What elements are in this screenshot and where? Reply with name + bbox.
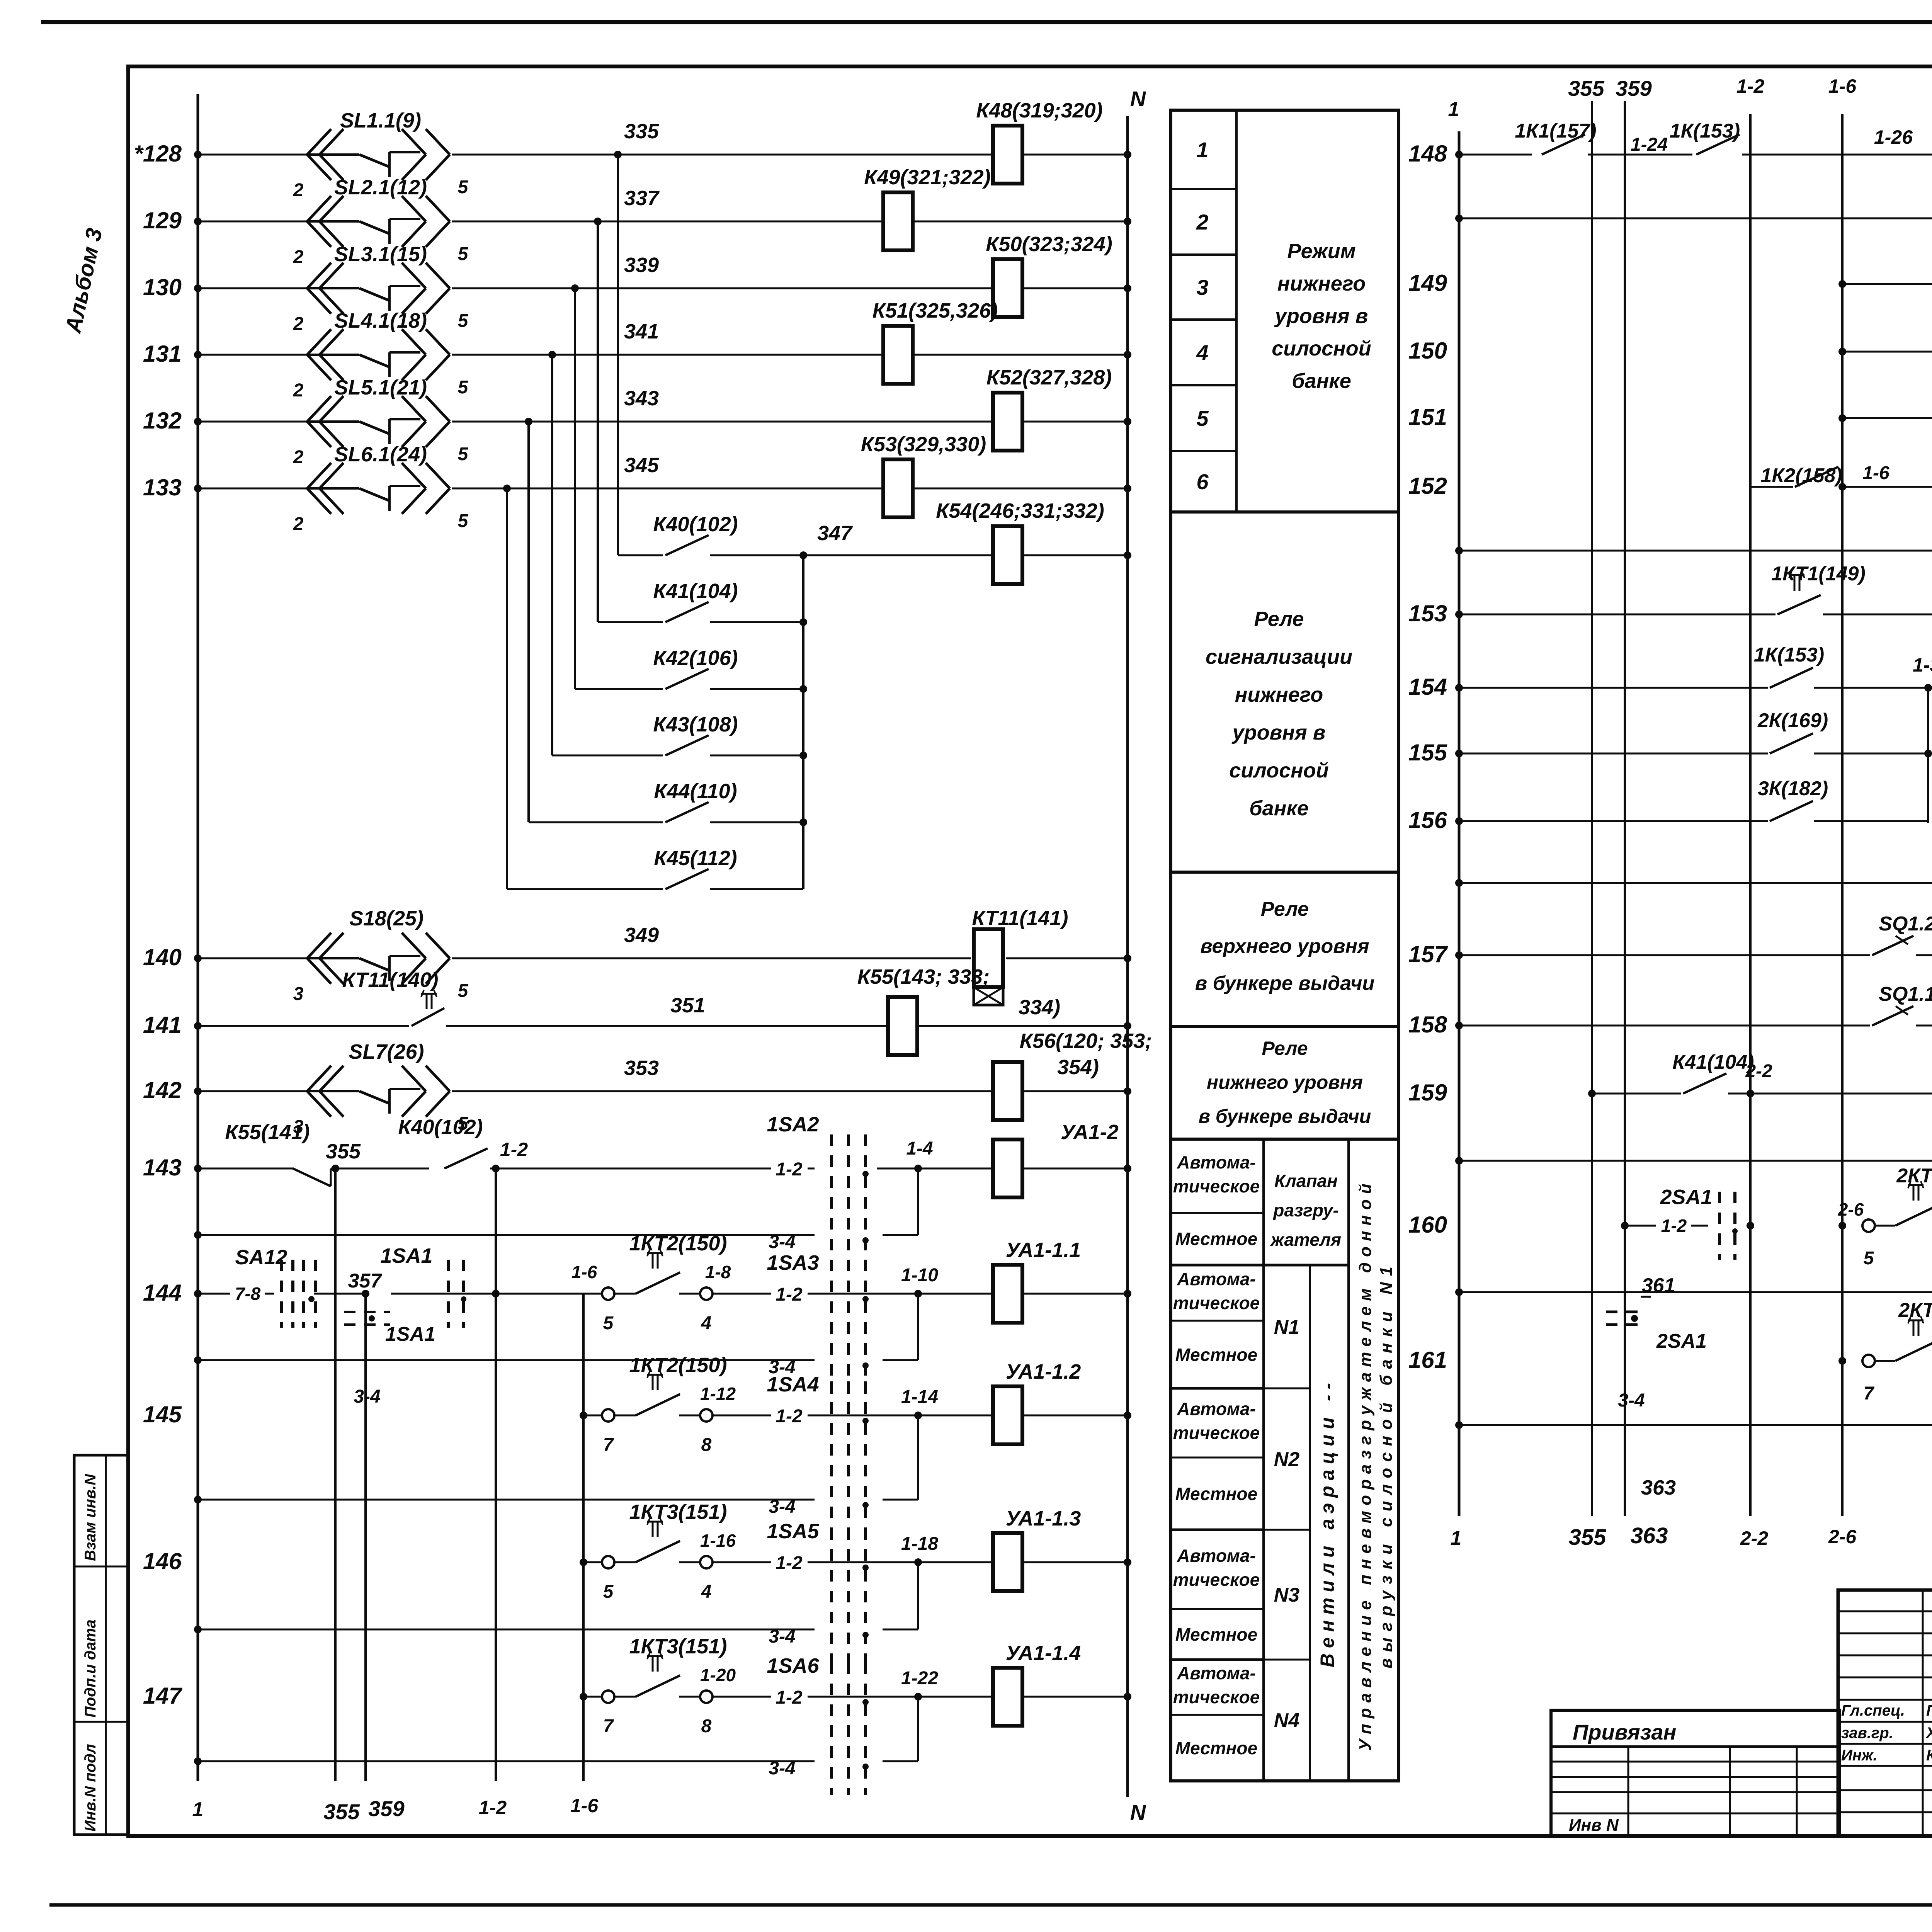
drop wire from row 132 [527, 422, 530, 822]
svg-text:1SА4: 1SА4 [767, 1373, 819, 1396]
wire row 132 to N bus [1022, 418, 1131, 425]
svg-text:К55(143; 333;: К55(143; 333; [857, 965, 990, 988]
wire row 160 a [1621, 1216, 1708, 1236]
svg-text:7: 7 [1864, 1383, 1875, 1404]
coil K54 [993, 526, 1022, 584]
wire 3-4 group 145 [194, 1415, 918, 1517]
svg-text:верхнего уровня: верхнего уровня [1200, 935, 1369, 957]
svg-text:130: 130 [143, 274, 182, 300]
wire 3-4 group 144 [194, 1294, 918, 1378]
node 347 [799, 522, 853, 559]
title block signature grid [1838, 1590, 1932, 1836]
switch 1SА4 [767, 1373, 869, 1534]
svg-text:5: 5 [458, 311, 469, 331]
paper top edge line [41, 20, 1932, 24]
svg-text:140: 140 [143, 944, 182, 970]
coil label К52(327,328) [986, 366, 1112, 389]
wire row 152 [1838, 463, 1932, 491]
svg-text:Хрипишеина: Хрипишеина [1925, 1725, 1932, 1742]
svg-text:347: 347 [817, 522, 853, 545]
svg-text:Управление пневморазгружателем: Управление пневморазгружателем донной [1356, 1178, 1375, 1751]
coil К50 [993, 259, 1022, 317]
svg-text:1-26: 1-26 [1874, 126, 1913, 148]
wire row 142 to N [1022, 1087, 1131, 1095]
svg-text:Реле: Реле [1262, 1037, 1308, 1059]
svg-text:363: 363 [1631, 1523, 1668, 1548]
switch 2SA1 3-4 mark 361 [1606, 1274, 1707, 1411]
title block outer [1838, 1590, 1932, 1836]
wire 3-4 f [1455, 1361, 1932, 1429]
row number 152 [1408, 473, 1447, 499]
wire 3-4 group 147 [194, 1697, 918, 1779]
coil УА1-2 [993, 1139, 1022, 1197]
coil УА1-1.3 [993, 1533, 1022, 1591]
coil К48 [993, 126, 1022, 184]
wire row 159 b [1728, 1061, 1932, 1097]
coil УА1-1.1 [993, 1265, 1022, 1323]
svg-text:337: 337 [624, 187, 660, 210]
svg-text:345: 345 [624, 454, 659, 477]
contact 2КТ2(166) row160 [1838, 1181, 1932, 1269]
wire row 128 to N bus [1022, 151, 1131, 158]
wire row143 to N [1022, 1165, 1131, 1172]
svg-text:нижнего уровня: нижнего уровня [1207, 1071, 1363, 1093]
contact label К55(141) [225, 1121, 310, 1144]
middle table cell Реле верхнего уровня [1195, 898, 1374, 995]
svg-text:2: 2 [1196, 210, 1208, 234]
svg-text:1КТ1(149): 1КТ1(149) [1771, 563, 1866, 585]
svg-text:УА1-1.4: УА1-1.4 [1006, 1641, 1081, 1665]
row number 128 [134, 141, 182, 167]
wire row 144 to N [1022, 1290, 1131, 1298]
wire row 133 to N bus [913, 485, 1131, 492]
wire row 133 left segment [194, 485, 307, 492]
wire vertical 355 right [1591, 101, 1593, 1516]
wire vertical 1-6/2-6 right [1841, 114, 1844, 1516]
contact label 2КТ2(166) row161 [1898, 1299, 1932, 1321]
svg-text:К54(246;331;332): К54(246;331;332) [936, 499, 1104, 522]
wire row 153 a [1455, 611, 1776, 618]
svg-text:SА12: SА12 [235, 1246, 287, 1269]
contact 2К(169) [1757, 709, 1828, 753]
svg-text:1-8: 1-8 [705, 1262, 731, 1282]
middle table numbered col [1235, 110, 1238, 512]
svg-text:в бункере выдачи: в бункере выдачи [1195, 972, 1374, 995]
contact 1КТ3(151) row 146 [602, 1518, 736, 1602]
privyazan Инв N [1569, 1816, 1619, 1835]
svg-text:банке: банке [1249, 797, 1308, 820]
svg-text:161: 161 [1408, 1347, 1447, 1373]
wire row144 b [391, 1290, 500, 1298]
svg-text:148: 148 [1408, 141, 1447, 167]
wire vertical 359 left [364, 1294, 367, 1781]
svg-text:3: 3 [1196, 275, 1208, 299]
contact КТ11(140) [412, 990, 887, 1026]
svg-text:335: 335 [624, 120, 659, 143]
svg-text:1: 1 [1448, 98, 1459, 121]
svg-text:5: 5 [603, 1582, 614, 1602]
svg-text:Автома-: Автома- [1177, 1663, 1256, 1683]
wire row 154 b [1814, 654, 1932, 692]
svg-text:1: 1 [192, 1798, 204, 1821]
switch 1SА5 [767, 1520, 869, 1663]
privyazan label [1573, 1720, 1676, 1744]
contact К42(106) [665, 669, 803, 689]
svg-text:5: 5 [458, 444, 469, 464]
svg-text:4: 4 [701, 1582, 712, 1602]
wire 3-4 d [1455, 1094, 1932, 1165]
top labels right half [1568, 75, 1857, 100]
contact label SL7(26) [349, 1040, 424, 1063]
coil К53 [883, 459, 913, 517]
svg-text:1-6: 1-6 [1862, 463, 1889, 483]
svg-text:тическое: тическое [1173, 1570, 1260, 1590]
coil label КТ11(141) [972, 906, 1068, 930]
svg-text:359: 359 [1616, 76, 1651, 100]
contact SL1.1(9) [293, 109, 469, 201]
svg-text:N4: N4 [1274, 1709, 1300, 1732]
row number 146 [143, 1548, 182, 1574]
row number 156 [1408, 807, 1447, 833]
svg-text:1-16: 1-16 [700, 1531, 736, 1551]
switch 1SA1 3-4 mark [344, 1312, 435, 1407]
svg-text:Вентили аэрации --: Вентили аэрации -- [1316, 1378, 1338, 1667]
node 335 label [624, 120, 659, 143]
coil КТ11 [974, 929, 1003, 1005]
svg-text:3-4: 3-4 [769, 1758, 795, 1779]
switch 1SA2 [767, 1113, 866, 1269]
contact label К40(102) [398, 1116, 483, 1139]
svg-text:SL5.1(21): SL5.1(21) [334, 376, 427, 399]
svg-text:152: 152 [1408, 473, 1447, 499]
svg-text:Местное: Местное [1175, 1484, 1257, 1504]
privyazan grid [1551, 1747, 1839, 1836]
svg-text:SQ1.2: SQ1.2 [1879, 913, 1932, 935]
wire row 144 mid [713, 1265, 993, 1305]
row number 140 [143, 944, 182, 970]
wire 3-4 c [1455, 688, 1932, 887]
row number 132 [143, 408, 182, 434]
svg-text:SL7(26): SL7(26) [349, 1040, 424, 1063]
svg-text:159: 159 [1408, 1080, 1447, 1105]
svg-text:Реле: Реле [1254, 607, 1304, 631]
contact К43(108) [665, 735, 803, 755]
wire row 149 [1838, 280, 1932, 288]
wire row 141 left [194, 1022, 409, 1030]
contact К55(141) [293, 1168, 429, 1186]
wire row 156 [1455, 817, 1768, 825]
contact SQ1.2 [1872, 913, 1932, 955]
svg-text:тическое: тическое [1173, 1687, 1260, 1707]
middle table cell Режим нижнего уровня [1272, 240, 1371, 393]
contact label 1КТ2(150) [629, 1232, 727, 1255]
row number 142 [143, 1077, 182, 1103]
wire row 128 left segment [194, 151, 307, 158]
contact label 1КТ3(151) [629, 1635, 727, 1658]
svg-text:Взам инв.N: Взам инв.N [82, 1474, 99, 1561]
wire row 131 to N bus [913, 351, 1131, 359]
svg-text:2: 2 [293, 180, 304, 201]
stamp label Подп. и дата [82, 1619, 99, 1718]
svg-text:К52(327,328): К52(327,328) [986, 366, 1112, 389]
wire row 155 b [1814, 750, 1932, 757]
svg-text:Автома-: Автома- [1177, 1152, 1256, 1172]
svg-text:Режим: Режим [1287, 240, 1355, 263]
svg-text:Автома-: Автома- [1177, 1546, 1256, 1566]
wire K42 branch row [575, 688, 663, 690]
coil К52 [993, 393, 1022, 451]
svg-text:К44(110): К44(110) [654, 780, 737, 803]
wire row 132 left segment [194, 418, 307, 425]
row number 155 [1408, 740, 1448, 765]
svg-text:силосной: силосной [1229, 759, 1329, 782]
contact S18(25) [293, 933, 469, 1004]
wire row 140 mid [452, 957, 971, 959]
contact К41(104) [1672, 1051, 1754, 1094]
svg-text:Местное: Местное [1175, 1229, 1257, 1249]
svg-text:353: 353 [624, 1056, 659, 1080]
drop wire from row 133 [506, 488, 508, 889]
svg-text:1-2: 1-2 [776, 1159, 803, 1180]
coil label УА1-1.2 [1006, 1360, 1081, 1383]
middle table rotated Управление [1356, 1178, 1396, 1751]
svg-text:2К(169): 2К(169) [1757, 709, 1828, 732]
node 351 label [670, 994, 705, 1017]
junction on 347 bus row 137 [799, 685, 807, 693]
contact 1К1(157) [1515, 120, 1596, 155]
svg-text:силосной: силосной [1272, 337, 1371, 360]
svg-text:2SА1: 2SА1 [1660, 1185, 1712, 1209]
svg-text:150: 150 [1408, 338, 1447, 364]
coil УА1-1.2 [993, 1386, 1022, 1444]
middle table divider 3274 full [1171, 1264, 1349, 1267]
row number 130 [143, 274, 182, 300]
svg-text:153: 153 [1408, 600, 1447, 626]
svg-text:1SА6: 1SА6 [767, 1654, 819, 1677]
svg-text:1SА1: 1SА1 [385, 1323, 435, 1345]
wire row 146 from 1-6 [580, 1558, 602, 1566]
paper bottom edge line [49, 1903, 1932, 1907]
row number 147 [143, 1683, 183, 1709]
drop wire from row 128 [617, 155, 619, 555]
wire K40 branch row [618, 554, 663, 556]
coil УА1-1.4 [993, 1668, 1022, 1726]
svg-text:5: 5 [1864, 1248, 1874, 1269]
row number 129 [143, 207, 182, 233]
svg-text:160: 160 [1408, 1212, 1447, 1238]
switch 2SA1 row160 [1660, 1185, 1738, 1260]
svg-text:Инж.: Инж. [1841, 1747, 1878, 1764]
svg-text:К50(323;324): К50(323;324) [986, 233, 1112, 256]
wire row 156 b [1814, 820, 1928, 822]
node 355 start [326, 1140, 361, 1172]
contact label 2КТ2(166) row160 [1896, 1165, 1932, 1187]
middle table divider 2948 [1171, 1138, 1399, 1141]
contact SQ1.1 [1872, 983, 1932, 1026]
wire row 141 to N [917, 1022, 1131, 1030]
contact 3К(182) [1758, 777, 1828, 821]
svg-text:уровня в: уровня в [1274, 304, 1368, 328]
svg-text:2: 2 [293, 514, 304, 534]
svg-text:Местное: Местное [1175, 1738, 1257, 1758]
svg-text:6: 6 [1196, 469, 1209, 494]
middle table number cells 1-6 [1171, 138, 1399, 512]
wire row 158 a [1455, 1022, 1870, 1029]
svg-text:1-10: 1-10 [901, 1265, 938, 1286]
node 349 label [624, 923, 659, 947]
contact К40(102) row143 [444, 1148, 815, 1168]
node 1-2 start [492, 1139, 528, 1172]
coil label К51(325,326) [872, 299, 998, 322]
title block signature text Гл.спец Потехин [1841, 1702, 1932, 1719]
middle table rotated Вентили аэрации [1316, 1378, 1338, 1667]
svg-text:361: 361 [1642, 1274, 1675, 1297]
svg-text:Автома-: Автома- [1177, 1269, 1256, 1289]
row number 144 [143, 1280, 182, 1306]
svg-text:Местное: Местное [1175, 1345, 1257, 1365]
svg-text:1КТ2(150): 1КТ2(150) [629, 1354, 727, 1377]
row number 150 [1408, 338, 1447, 364]
svg-text:149: 149 [1408, 270, 1447, 296]
wire vertical 359-363 right [1624, 101, 1626, 1516]
svg-text:351: 351 [670, 994, 705, 1017]
row number 157 [1408, 941, 1448, 967]
wire row 154 a [1455, 684, 1768, 692]
node 341 label [624, 320, 659, 343]
contact label К40(102) [653, 513, 738, 536]
svg-text:1-14: 1-14 [901, 1387, 938, 1407]
contact 1КТ2(150) row 145 [602, 1371, 736, 1455]
svg-text:Подп.и дата: Подп.и дата [82, 1619, 99, 1718]
coil label 354) [1057, 1056, 1099, 1079]
svg-text:Клапан: Клапан [1274, 1171, 1338, 1191]
svg-text:сигнализации: сигнализации [1206, 645, 1352, 668]
wire 3-4 group 146 [194, 1562, 918, 1647]
contact 1КТ1(149) [1771, 563, 1866, 614]
switch 1SА3 [767, 1251, 869, 1394]
svg-text:1-6: 1-6 [571, 1262, 597, 1282]
svg-text:1: 1 [1196, 138, 1208, 162]
svg-text:банке: банке [1292, 369, 1351, 393]
svg-text:129: 129 [143, 207, 182, 233]
row number 143 [143, 1155, 182, 1180]
coil label УА1-1.4 [1006, 1641, 1081, 1665]
svg-text:SL2.1(12): SL2.1(12) [334, 176, 427, 199]
drop wire from row 131 [551, 355, 553, 755]
right supply bus 1 [1448, 98, 1462, 1549]
contact label К42(106) [653, 646, 738, 670]
svg-text:5: 5 [458, 981, 469, 1001]
contact SL5.1(21) [293, 376, 469, 468]
svg-text:1-18: 1-18 [901, 1534, 938, 1554]
wire row 132 to junction [452, 418, 993, 425]
svg-text:2SА1: 2SА1 [1656, 1330, 1707, 1352]
svg-text:5: 5 [458, 177, 469, 197]
wire row 130 to junction [452, 284, 993, 292]
junction on 347 bus row 136 [799, 618, 807, 626]
svg-text:334): 334) [1019, 996, 1060, 1019]
drop wire from row 129 [597, 221, 599, 622]
coil label К49(321;322) [864, 166, 990, 189]
middle table divider 2257 [1171, 871, 1399, 874]
svg-text:5: 5 [1196, 406, 1209, 430]
svg-text:УА1-1.2: УА1-1.2 [1006, 1360, 1081, 1383]
svg-text:7-8: 7-8 [235, 1284, 261, 1304]
wire 3-4 row143 [194, 1168, 918, 1252]
svg-text:3-4: 3-4 [769, 1626, 795, 1647]
wire row 142 mid [452, 1090, 993, 1092]
coil label УА1-1.1 [1006, 1238, 1081, 1262]
label 363 mid [1641, 1476, 1676, 1499]
svg-text:3-4: 3-4 [769, 1232, 795, 1252]
svg-text:341: 341 [624, 320, 659, 343]
svg-text:уровня в: уровня в [1231, 721, 1326, 744]
svg-text:N: N [1130, 87, 1146, 111]
svg-text:1КТ2(150): 1КТ2(150) [629, 1232, 727, 1255]
svg-text:SL6.1(24): SL6.1(24) [334, 443, 427, 466]
svg-text:5: 5 [458, 244, 469, 264]
svg-text:5: 5 [458, 377, 469, 398]
row number 159 [1408, 1080, 1447, 1105]
wire row 151 [1838, 414, 1932, 422]
svg-text:5: 5 [603, 1313, 614, 1333]
svg-text:1-22: 1-22 [901, 1668, 938, 1689]
junction on 347 bus row 138 [799, 752, 807, 759]
wire row 145 mid [713, 1387, 993, 1427]
svg-text:жателя: жателя [1270, 1230, 1341, 1250]
svg-text:Привязан: Привязан [1573, 1720, 1676, 1744]
svg-text:147: 147 [143, 1683, 183, 1709]
svg-text:1-2: 1-2 [776, 1284, 803, 1305]
svg-text:УА1-1.1: УА1-1.1 [1006, 1238, 1081, 1262]
svg-text:1-6: 1-6 [570, 1795, 599, 1816]
switch 1SА6 [767, 1654, 869, 1795]
wire row 146 mid [713, 1534, 993, 1573]
svg-text:3-4: 3-4 [769, 1497, 795, 1517]
wire row 157 a [1455, 951, 1870, 959]
svg-text:2-2: 2-2 [1745, 1061, 1772, 1082]
left stamp box column [74, 1455, 128, 1835]
svg-text:3-4: 3-4 [1618, 1390, 1645, 1411]
wire row 155 [1455, 750, 1768, 757]
svg-text:*128: *128 [134, 141, 182, 167]
svg-text:363: 363 [1641, 1476, 1676, 1499]
svg-text:349: 349 [624, 923, 659, 947]
svg-text:N2: N2 [1274, 1448, 1300, 1471]
coil label К48(319;320) [976, 99, 1102, 122]
contact label 1КТ2(150) [629, 1354, 727, 1377]
contact К44(110) [665, 802, 803, 822]
svg-text:УА1-1.3: УА1-1.3 [1006, 1507, 1081, 1530]
coil К51 [883, 326, 913, 384]
wire row 144 from bus [194, 1284, 274, 1304]
svg-text:К41(104): К41(104) [653, 580, 738, 603]
svg-text:1К(153): 1К(153) [1670, 120, 1740, 142]
svg-text:SL1.1(9): SL1.1(9) [340, 109, 421, 132]
middle table Авт/Местное rows [1171, 1139, 1399, 1758]
wire row 157 b [1916, 929, 1932, 955]
svg-text:тическое: тическое [1173, 1176, 1260, 1196]
middle table col dividers lower [1264, 1139, 1349, 1781]
wire K45 branch row [507, 888, 663, 890]
svg-text:146: 146 [143, 1548, 182, 1574]
svg-text:Реле: Реле [1261, 898, 1309, 920]
contact SL3.1(15) [293, 243, 469, 334]
wire row 148 b [1588, 134, 1692, 155]
wire row 159 a [1588, 1090, 1681, 1097]
coil label К56(120; 353; [1020, 1029, 1152, 1053]
svg-text:1-6: 1-6 [1828, 75, 1857, 97]
